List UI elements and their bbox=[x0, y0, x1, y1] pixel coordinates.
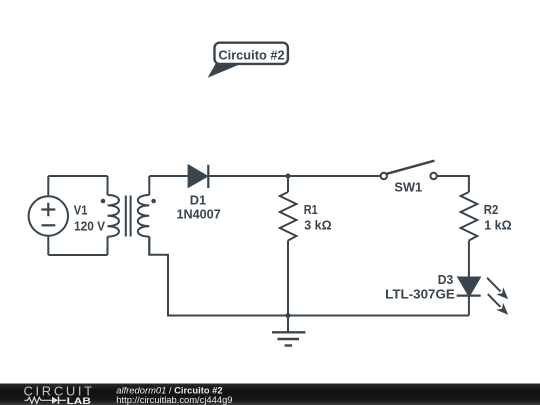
svg-text:SW1: SW1 bbox=[394, 180, 422, 195]
svg-text:R2: R2 bbox=[484, 202, 499, 217]
wire LED to bottom rail bbox=[468, 296, 470, 316]
transformer primary phase dot bbox=[101, 199, 106, 204]
node junction top of R1 bbox=[286, 174, 291, 179]
switch SW1 bbox=[381, 161, 437, 180]
diode D1 bbox=[189, 165, 209, 188]
svg-text:V1: V1 bbox=[74, 202, 88, 217]
wire V1 top lead bbox=[47, 176, 49, 196]
label SW1 bbox=[394, 180, 422, 195]
svg-text:LTL-307GE: LTL-307GE bbox=[385, 287, 455, 302]
svg-text:D1: D1 bbox=[190, 192, 206, 207]
footer logo resistor-diode mark bbox=[25, 397, 67, 404]
wire switch to R2 bbox=[437, 176, 469, 192]
label R2 value bbox=[484, 202, 512, 232]
voltage source V1 bbox=[29, 196, 68, 235]
svg-text:LAB: LAB bbox=[67, 396, 91, 405]
LED D3 bbox=[457, 278, 481, 296]
svg-text:3 kΩ: 3 kΩ bbox=[304, 218, 331, 233]
resistor R1 bbox=[280, 176, 297, 316]
LED D3 arrow 1 bbox=[487, 278, 508, 299]
footer bar bbox=[0, 384, 540, 405]
label D3 value bbox=[385, 272, 455, 302]
svg-text:1N4007: 1N4007 bbox=[176, 206, 220, 221]
wire bottom rail bbox=[149, 237, 469, 316]
svg-text:D3: D3 bbox=[438, 272, 454, 287]
footer logo LAB text bbox=[67, 396, 91, 405]
LED D3 arrow 2 bbox=[488, 294, 508, 315]
svg-text:1 kΩ: 1 kΩ bbox=[484, 218, 511, 233]
wire V1 bottom lead bbox=[47, 236, 49, 255]
transformer secondary phase dot bbox=[151, 199, 156, 204]
svg-text:120 V: 120 V bbox=[74, 218, 105, 233]
svg-text:http://circuitlab.com/cj444g9: http://circuitlab.com/cj444g9 bbox=[116, 394, 232, 405]
node junction ground bbox=[286, 313, 291, 318]
transformer T1 primary coil bbox=[108, 176, 119, 255]
wire top from V1 to transformer bbox=[48, 175, 107, 177]
resistor R2 bbox=[461, 192, 478, 278]
transformer T1 secondary coil bbox=[138, 176, 149, 255]
wire transformer to diode D1 bbox=[149, 175, 188, 177]
footer title text bbox=[116, 384, 232, 405]
ground symbol bbox=[272, 316, 305, 346]
svg-text:Circuito #2: Circuito #2 bbox=[218, 48, 284, 63]
label D1 value bbox=[176, 192, 220, 221]
comment bubble Circuito #2 bbox=[208, 43, 288, 78]
wire diode to switch bbox=[208, 175, 380, 177]
transformer core bbox=[126, 196, 131, 237]
label V1 value bbox=[74, 202, 106, 233]
wire bottom from V1 to transformer bbox=[48, 254, 107, 256]
footer logo CIRCUIT text bbox=[24, 384, 95, 399]
label R1 value bbox=[304, 202, 332, 232]
svg-text:R1: R1 bbox=[304, 202, 318, 217]
